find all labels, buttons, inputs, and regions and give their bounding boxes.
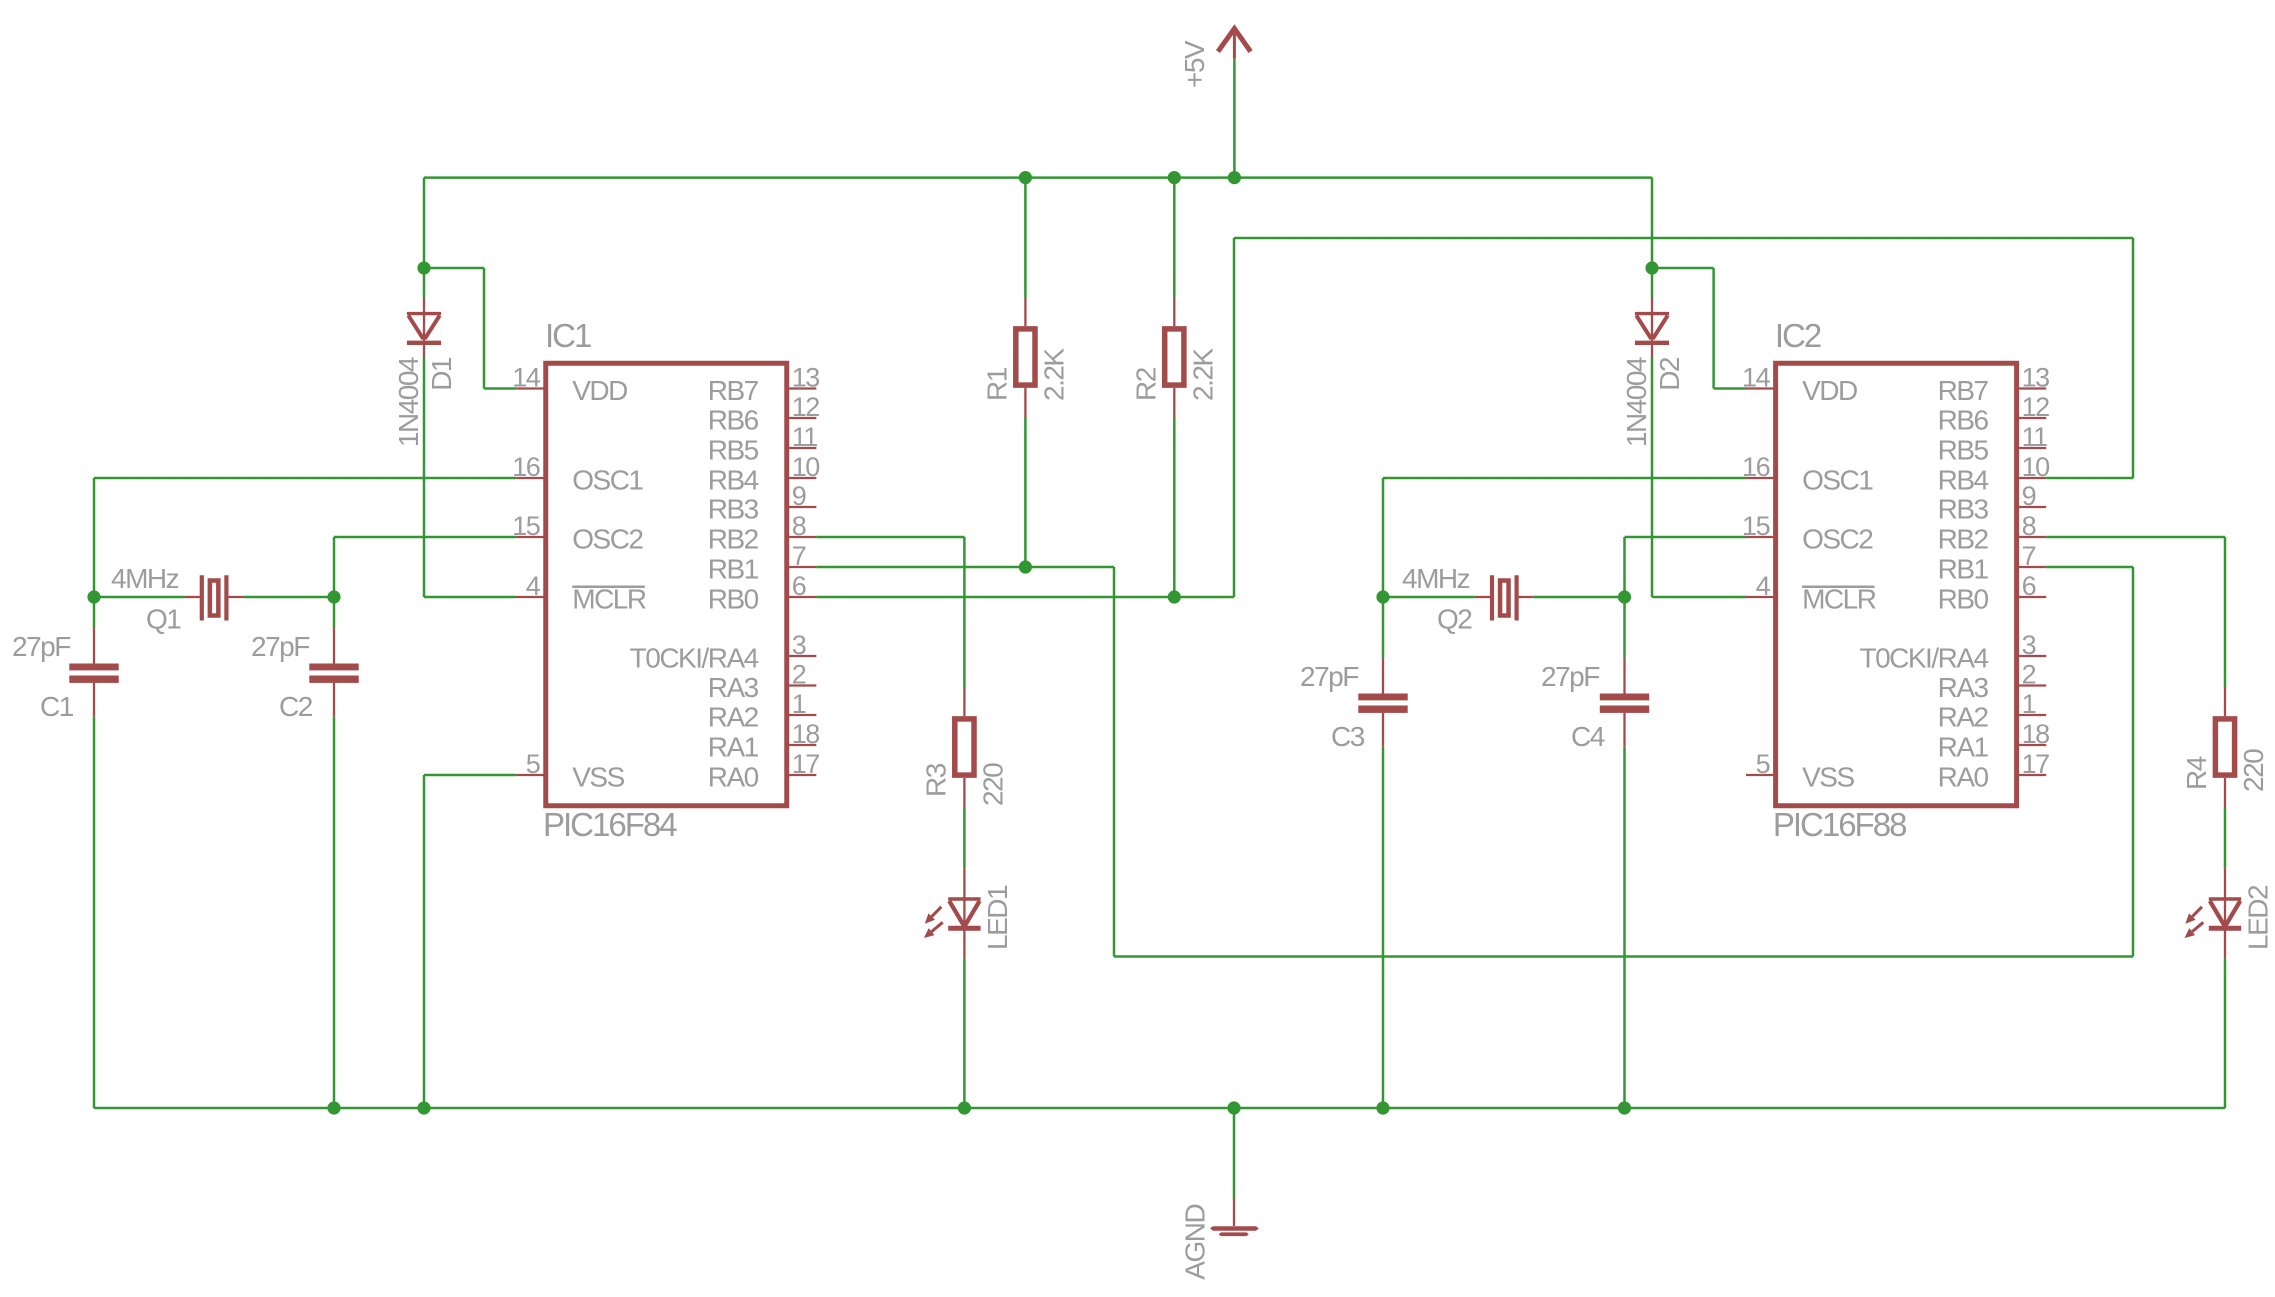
svg-text:13: 13: [2022, 363, 2050, 393]
svg-text:T0CKI/RA4: T0CKI/RA4: [630, 643, 759, 674]
svg-text:16: 16: [1742, 452, 1770, 482]
svg-text:11: 11: [2022, 422, 2048, 452]
svg-text:R4: R4: [2181, 756, 2212, 790]
svg-text:14: 14: [512, 363, 541, 393]
svg-text:OSC1: OSC1: [1802, 465, 1873, 496]
svg-text:LED1: LED1: [982, 885, 1013, 950]
svg-text:11: 11: [792, 422, 818, 452]
svg-text:RB6: RB6: [708, 405, 759, 436]
svg-text:1: 1: [792, 689, 806, 719]
svg-text:4: 4: [1756, 571, 1771, 601]
svg-text:VSS: VSS: [572, 762, 624, 793]
svg-text:R3: R3: [920, 763, 951, 797]
svg-text:8: 8: [2022, 511, 2036, 541]
svg-text:D1: D1: [426, 357, 457, 391]
svg-text:27pF: 27pF: [251, 631, 309, 662]
svg-text:T0CKI/RA4: T0CKI/RA4: [1859, 643, 1988, 674]
svg-text:27pF: 27pF: [1541, 661, 1599, 692]
svg-text:220: 220: [2238, 749, 2269, 792]
svg-text:PIC16F84: PIC16F84: [543, 806, 677, 843]
svg-text:RB2: RB2: [1938, 524, 1989, 555]
svg-text:17: 17: [2022, 749, 2050, 779]
svg-text:D2: D2: [1654, 357, 1685, 391]
svg-text:14: 14: [1742, 363, 1771, 393]
svg-text:15: 15: [1742, 511, 1770, 541]
svg-text:VSS: VSS: [1802, 762, 1854, 793]
svg-text:Q2: Q2: [1437, 604, 1472, 635]
svg-text:6: 6: [2022, 571, 2036, 601]
svg-text:VDD: VDD: [572, 375, 627, 406]
svg-text:7: 7: [2022, 541, 2036, 571]
svg-text:C3: C3: [1331, 721, 1365, 752]
svg-text:2.2K: 2.2K: [1187, 348, 1218, 401]
svg-text:RB7: RB7: [1938, 375, 1989, 406]
svg-text:+5V: +5V: [1179, 40, 1210, 88]
svg-text:27pF: 27pF: [1300, 661, 1358, 692]
svg-text:MCLR: MCLR: [1802, 584, 1876, 615]
svg-text:12: 12: [2022, 392, 2050, 422]
svg-text:10: 10: [792, 452, 820, 482]
svg-text:R1: R1: [981, 367, 1012, 401]
svg-text:OSC2: OSC2: [572, 524, 643, 555]
svg-text:15: 15: [512, 511, 540, 541]
svg-text:RB0: RB0: [1938, 584, 1989, 615]
svg-text:RB5: RB5: [708, 435, 759, 466]
svg-text:RB4: RB4: [708, 465, 759, 496]
svg-text:RB1: RB1: [708, 554, 759, 585]
svg-text:8: 8: [792, 511, 806, 541]
svg-text:IC2: IC2: [1775, 317, 1821, 354]
svg-text:5: 5: [1756, 749, 1770, 779]
svg-text:4MHz: 4MHz: [1402, 563, 1470, 594]
svg-text:IC1: IC1: [545, 317, 591, 354]
svg-text:2: 2: [792, 660, 806, 690]
svg-text:PIC16F88: PIC16F88: [1773, 806, 1906, 843]
svg-text:4: 4: [526, 571, 541, 601]
svg-text:2.2K: 2.2K: [1038, 348, 1069, 401]
svg-text:RB4: RB4: [1938, 465, 1989, 496]
svg-text:RB5: RB5: [1938, 435, 1989, 466]
svg-text:10: 10: [2022, 452, 2050, 482]
svg-text:RA1: RA1: [708, 732, 759, 763]
svg-text:RB1: RB1: [1938, 554, 1989, 585]
svg-text:16: 16: [512, 452, 540, 482]
svg-text:1N4004: 1N4004: [393, 357, 424, 447]
svg-text:9: 9: [2022, 481, 2036, 511]
svg-text:27pF: 27pF: [12, 631, 70, 662]
svg-text:2: 2: [2022, 660, 2036, 690]
svg-text:C2: C2: [279, 691, 313, 722]
svg-text:RA1: RA1: [1938, 732, 1989, 763]
svg-text:OSC1: OSC1: [572, 465, 643, 496]
svg-text:18: 18: [792, 719, 820, 749]
svg-text:3: 3: [2022, 630, 2036, 660]
svg-text:RA2: RA2: [1938, 702, 1989, 733]
svg-text:R2: R2: [1130, 367, 1161, 401]
svg-text:C1: C1: [40, 691, 74, 722]
svg-text:RB3: RB3: [708, 494, 759, 525]
svg-text:RB2: RB2: [708, 524, 759, 555]
svg-text:3: 3: [792, 630, 806, 660]
svg-text:OSC2: OSC2: [1802, 524, 1873, 555]
svg-text:RA3: RA3: [708, 672, 759, 703]
svg-text:7: 7: [792, 541, 806, 571]
svg-text:RB7: RB7: [708, 375, 759, 406]
svg-text:220: 220: [977, 763, 1008, 806]
svg-text:AGND: AGND: [1180, 1205, 1211, 1280]
svg-text:RA2: RA2: [708, 702, 759, 733]
svg-text:RB0: RB0: [708, 584, 759, 615]
svg-text:17: 17: [792, 749, 820, 779]
svg-text:RB6: RB6: [1938, 405, 1989, 436]
svg-text:RB3: RB3: [1938, 494, 1989, 525]
svg-text:LED2: LED2: [2243, 885, 2274, 950]
svg-text:5: 5: [526, 749, 540, 779]
svg-text:1: 1: [2022, 689, 2036, 719]
svg-text:6: 6: [792, 571, 806, 601]
svg-text:MCLR: MCLR: [572, 584, 646, 615]
svg-text:12: 12: [792, 392, 820, 422]
svg-text:9: 9: [792, 481, 806, 511]
svg-text:RA0: RA0: [708, 762, 759, 793]
svg-text:RA0: RA0: [1938, 762, 1989, 793]
svg-text:RA3: RA3: [1938, 672, 1989, 703]
svg-text:18: 18: [2022, 719, 2050, 749]
svg-text:1N4004: 1N4004: [1621, 357, 1652, 447]
svg-text:C4: C4: [1571, 721, 1605, 752]
svg-text:Q1: Q1: [146, 604, 181, 635]
svg-text:4MHz: 4MHz: [111, 563, 179, 594]
svg-text:VDD: VDD: [1802, 375, 1857, 406]
svg-text:13: 13: [792, 363, 820, 393]
